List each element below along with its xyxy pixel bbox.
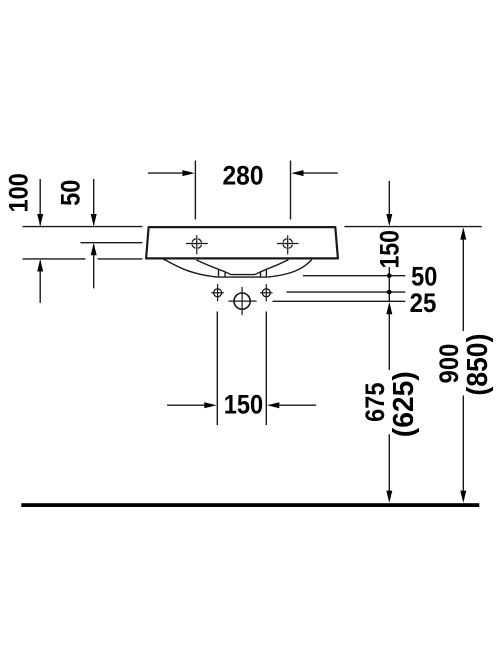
bowl inner profile with drain fitting top <box>196 260 288 275</box>
svg-text:50: 50 <box>55 180 85 206</box>
svg-text:100: 100 <box>4 173 34 212</box>
drain fitting tick 1 <box>218 269 220 277</box>
arrowhead bottom150 left-pointing <box>267 402 279 408</box>
tap hole right symbol <box>277 235 299 254</box>
ext line bottom 150 right <box>265 312 267 426</box>
dim 100 upper stem <box>39 179 41 225</box>
drain outlet hole <box>228 287 256 315</box>
svg-text:25: 25 <box>410 288 437 318</box>
dim 50 lower stem <box>93 245 95 288</box>
bowl outer curve right <box>268 260 312 277</box>
arrowhead dim50 up <box>91 243 97 255</box>
svg-text:675: 675 <box>360 383 390 422</box>
arrowhead 280 left <box>182 170 194 176</box>
dim 675 lower stem <box>388 434 390 492</box>
arrowhead bottom150 right-pointing <box>204 402 216 408</box>
arrowhead dim100 up <box>37 259 43 271</box>
drain fitting tick 3 <box>260 272 262 277</box>
arrowhead 900 down <box>460 491 466 503</box>
svg-text:150: 150 <box>224 389 263 419</box>
extension line body bottom left <box>23 258 86 260</box>
dim chain stem through dots <box>388 267 390 301</box>
extension line tap axis left <box>81 242 143 244</box>
dim 900 upper stem <box>462 239 464 332</box>
dim 675 upper stem <box>388 313 390 370</box>
svg-text:(850): (850) <box>462 334 494 396</box>
dim 900 lower stem <box>462 396 464 493</box>
dim 280 right arrow line <box>303 172 338 174</box>
dim 280 left arrow line <box>148 172 183 174</box>
arrowhead dim50 down <box>91 214 97 226</box>
arrowhead 675 down <box>386 491 392 503</box>
dim line 150 right upper stem <box>388 181 390 215</box>
ext line 280 left <box>194 161 196 220</box>
drain fitting bottom line <box>217 276 268 278</box>
arrowhead dim100 down <box>37 214 43 226</box>
basin body outline <box>146 227 338 258</box>
ext line 280 right <box>290 161 292 220</box>
dot 50 chain <box>387 273 392 278</box>
svg-text:(625): (625) <box>388 371 420 437</box>
drain fitting tick 2 <box>224 272 226 277</box>
arrowhead 900 up <box>460 227 466 239</box>
svg-text:280: 280 <box>223 161 264 191</box>
tap hole left symbol <box>186 235 208 254</box>
dim 100 lower stem <box>39 261 41 303</box>
dim 50 upper stem <box>93 179 95 225</box>
bowl outer curve left <box>163 259 217 277</box>
arrowhead 675 up <box>386 302 392 314</box>
dim bottom 150 right arrow line <box>279 404 316 406</box>
arrowhead 150 right down <box>386 214 392 226</box>
floor line <box>21 503 479 507</box>
drain fitting tick 4 <box>265 269 267 277</box>
fixing hole right <box>260 284 273 301</box>
dim bottom 150 left arrow line <box>167 404 205 406</box>
extension line rim top left <box>23 226 143 228</box>
ext line drain axis right <box>273 300 406 302</box>
arrowhead 280 right <box>291 170 303 176</box>
svg-text:150: 150 <box>375 230 405 268</box>
ext line fixing holes right <box>287 291 406 293</box>
ext line fitting bottom right <box>303 275 405 277</box>
fixing hole left <box>211 284 224 301</box>
svg-text:50: 50 <box>411 261 437 291</box>
ext line bottom 150 left <box>216 312 218 426</box>
svg-text:900: 900 <box>434 344 464 384</box>
dot 25 chain <box>387 290 392 295</box>
ext line rim top right <box>344 226 481 228</box>
